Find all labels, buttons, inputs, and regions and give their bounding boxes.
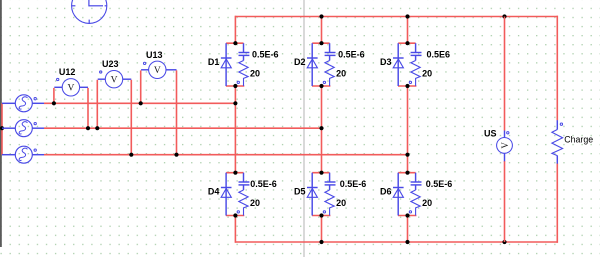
label D1	[208, 57, 220, 67]
label U13	[146, 50, 163, 60]
diode D5	[307, 173, 330, 216]
junction D5 top	[319, 171, 323, 175]
junction left bus	[0, 126, 4, 130]
value label D2 resistor	[336, 68, 346, 78]
diode D4	[221, 173, 244, 216]
voltmeter U12	[54, 79, 88, 129]
svg-text:U13: U13	[146, 50, 163, 60]
junction D4 bottom	[233, 213, 237, 217]
plus marker U23	[100, 71, 102, 73]
wire US branch	[504, 17, 506, 243]
wire phase 2	[44, 127, 322, 129]
plus marker V2	[34, 122, 36, 124]
diode D6	[393, 173, 416, 216]
wire Charge branch	[556, 16, 558, 243]
capacitor D1 snubber	[239, 43, 250, 60]
junction D1 top	[233, 41, 237, 45]
label D2	[294, 57, 306, 67]
capacitor D5 snubber	[325, 173, 336, 190]
svg-text:V: V	[500, 142, 510, 149]
junction D2 bottom	[319, 84, 323, 88]
junction phase3 D3	[405, 153, 409, 157]
wire left bus	[1, 103, 3, 154]
plus marker D1 snubber	[237, 81, 239, 83]
svg-text:20: 20	[250, 68, 260, 78]
label US	[484, 129, 497, 139]
svg-text:0.5E6: 0.5E6	[427, 50, 451, 60]
svg-text:0.5E-6: 0.5E-6	[338, 50, 365, 60]
junction U23 left phase2	[95, 126, 99, 130]
resistor D4 snubber	[239, 190, 248, 216]
svg-text:V: V	[154, 66, 161, 76]
voltmeter US	[497, 131, 513, 162]
resistor D1 snubber	[239, 61, 248, 87]
wire D1 column	[234, 16, 236, 243]
capacitor D2 snubber	[325, 43, 336, 60]
junction bottom bus D5	[319, 240, 323, 244]
value label D4 capacitor	[250, 179, 277, 189]
junction D4 top	[233, 171, 237, 175]
svg-text:20: 20	[250, 198, 260, 208]
ac source V2	[2, 120, 44, 137]
junction top bus US	[502, 14, 506, 18]
svg-text:V: V	[111, 75, 118, 85]
plus marker D6 snubber	[409, 211, 411, 213]
capacitor D6 snubber	[411, 173, 422, 190]
svg-text:20: 20	[422, 68, 432, 78]
label Charge	[564, 134, 593, 144]
junction U12 right phase2	[86, 126, 90, 130]
value label D6 capacitor	[426, 179, 453, 189]
ac source V3	[2, 146, 44, 163]
value label D3 resistor	[422, 68, 432, 78]
resistor D6 snubber	[411, 190, 420, 216]
svg-text:0.5E-6: 0.5E-6	[252, 50, 279, 60]
svg-text:0.5E-6: 0.5E-6	[250, 179, 277, 189]
wire D2 column	[321, 17, 323, 243]
junction phase2 D2	[319, 126, 323, 130]
resistor D2 snubber	[325, 61, 334, 87]
svg-text:D2: D2	[294, 57, 306, 67]
wire phase 1	[44, 102, 235, 104]
diode D3	[393, 43, 416, 86]
plus marker D4 snubber	[237, 211, 239, 213]
svg-text:20: 20	[422, 198, 432, 208]
svg-text:0.5E-6: 0.5E-6	[426, 179, 453, 189]
plus marker V1	[34, 98, 36, 100]
label U23	[102, 59, 119, 69]
value label D3 capacitor	[427, 50, 451, 60]
resistor D5 snubber	[325, 190, 334, 216]
diode D1	[221, 43, 244, 86]
svg-text:U23: U23	[102, 59, 119, 69]
plus marker US	[507, 132, 509, 134]
junction U23 right phase3	[129, 153, 133, 157]
value label D2 capacitor	[338, 50, 365, 60]
junction U12 left phase1	[52, 101, 56, 105]
value label D6 resistor	[422, 198, 432, 208]
svg-text:V: V	[67, 84, 74, 94]
plus marker D3 snubber	[409, 81, 411, 83]
svg-text:D6: D6	[380, 187, 392, 197]
junction D3 bottom	[405, 84, 409, 88]
value label D5 capacitor	[340, 179, 367, 189]
junction D1 bottom	[233, 84, 237, 88]
label U12	[59, 67, 76, 77]
svg-text:U12: U12	[59, 67, 76, 77]
plus marker Charge	[560, 123, 562, 125]
plus marker V3	[34, 149, 36, 151]
clock symbol	[72, 0, 107, 23]
svg-text:Charge: Charge	[564, 134, 593, 144]
junction top bus D3	[405, 14, 409, 18]
label D4	[208, 187, 220, 197]
junction D5 bottom	[319, 213, 323, 217]
plus marker U13	[143, 62, 145, 64]
plus marker D2 snubber	[323, 81, 325, 83]
junction bottom bus D6	[405, 240, 409, 244]
junction D3 top	[405, 41, 409, 45]
resistor Charge	[552, 120, 563, 164]
wire top bus	[235, 16, 558, 18]
diode D2	[307, 43, 330, 86]
plus marker U12	[57, 78, 59, 80]
svg-text:D3: D3	[380, 57, 392, 67]
junction D6 bottom	[405, 213, 409, 217]
svg-text:0.5E-6: 0.5E-6	[340, 179, 367, 189]
label D5	[294, 187, 306, 197]
junction phase1 D1	[233, 101, 237, 105]
wire D3 column	[407, 17, 409, 243]
wire phase 3	[44, 154, 408, 156]
capacitor D3 snubber	[411, 43, 422, 60]
svg-text:D4: D4	[208, 187, 220, 197]
capacitor D4 snubber	[239, 173, 250, 190]
value label D5 resistor	[336, 198, 346, 208]
voltmeter U13	[141, 61, 177, 155]
voltmeter U23	[97, 71, 131, 155]
junction U13 left phase1	[139, 101, 143, 105]
value label D4 resistor	[250, 198, 260, 208]
value label D1 resistor	[250, 68, 260, 78]
svg-text:D1: D1	[208, 57, 220, 67]
resistor D3 snubber	[411, 61, 420, 87]
junction D6 top	[405, 171, 409, 175]
junction top bus D2	[319, 14, 323, 18]
svg-text:20: 20	[336, 68, 346, 78]
label D3	[380, 57, 392, 67]
value label D1 capacitor	[252, 50, 279, 60]
junction bottom bus US	[502, 240, 506, 244]
plus marker D5 snubber	[323, 211, 325, 213]
svg-text:20: 20	[336, 198, 346, 208]
junction D2 top	[319, 41, 323, 45]
svg-text:US: US	[484, 129, 497, 139]
wire bottom bus	[235, 241, 558, 243]
svg-text:D5: D5	[294, 187, 306, 197]
junction U13 right phase3	[174, 153, 178, 157]
label D6	[380, 187, 392, 197]
ac source V1	[2, 95, 44, 112]
